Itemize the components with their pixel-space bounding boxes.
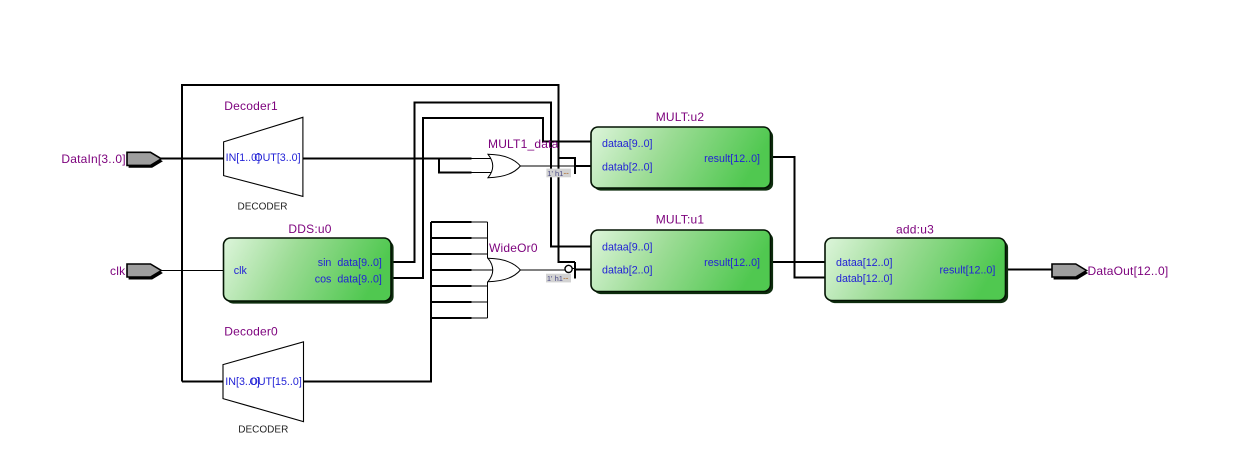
svg-text:OUT[3..0]: OUT[3..0] [254,152,300,164]
wire WideOr0 slat 4 thin into gate [472,269,493,271]
svg-text:dataa[9..0]: dataa[9..0] [602,138,653,150]
wire MULT1_data gate output [520,165,574,167]
wire u1 datab entry [575,269,592,271]
svg-text:DDS:u0: DDS:u0 [288,222,331,236]
svg-text:dataa[12..0]: dataa[12..0] [836,257,892,269]
constant 1'h1 label at MULT:u1 datab [546,274,571,283]
wire WideOr0 comb slat 6 [431,301,471,303]
svg-text:MULT:u1: MULT:u1 [656,213,705,227]
wire WideOr0 comb slat 7 [431,317,471,319]
wire WideOr0 slat 5 thin [472,285,488,287]
svg-text:add:u3: add:u3 [896,223,934,237]
block MULT:u1 [591,230,773,294]
wire sin data from DDS to MULT:u1 dataa [392,102,592,261]
input pin DataIn[3..0] [127,152,163,168]
svg-text:--: -- [564,168,570,177]
wire WideOr0 comb right rail upper [487,222,489,259]
wire bubble to u1 datab junction [572,268,575,270]
svg-text:DECODER: DECODER [237,201,287,212]
input pin clk [127,264,163,280]
svg-text:clk: clk [110,264,126,278]
wire WideOr0 gate output [520,269,565,271]
wire MULT:u1 result to add:u3 dataa [771,261,826,263]
svg-text:1' h1: 1' h1 [547,274,563,283]
wire WideOr0 comb right rail lower [487,282,489,318]
svg-text:MULT1_data: MULT1_data [488,137,559,151]
node bubble on WideOr0 output [565,265,572,272]
svg-text:--: -- [563,274,569,283]
svg-text:result[12..0]: result[12..0] [704,153,760,165]
wire MULT:u2 result to add:u3 datab [771,157,826,277]
wire WideOr0 slat 2 thin [472,237,488,239]
wire add:u3 result to DataOut pin [1006,269,1054,271]
constant 1'h1 label at MULT:u2 datab [546,168,571,177]
wire u1 datab junction stub [574,262,576,279]
svg-text:clk: clk [234,265,248,277]
wire Decoder0 output bus up to WideOr0 comb [304,222,432,382]
block MULT:u2 [591,127,773,191]
svg-text:cos data[9..0]: cos data[9..0] [315,273,382,285]
svg-text:Decoder0: Decoder0 [224,325,278,339]
wire WideOr0 comb slat 5 [431,285,471,287]
wire WideOr0 comb slat 1 [431,221,471,223]
wire WideOr0 slat 3 thin [472,253,488,255]
output pin DataOut[12..0] [1052,264,1088,280]
wire WideOr0 comb slat 2 [431,237,471,239]
wire Decoder0 input [182,381,224,383]
wire Decoder1 output bus [303,158,472,160]
svg-text:MULT:u2: MULT:u2 [656,110,705,124]
wire DataIn trunk: left vertical, top line, right vertical, branch to u1 datab junction [182,85,575,382]
svg-text:DataIn[3..0]: DataIn[3..0] [61,152,125,166]
svg-text:OUT[15..0]: OUT[15..0] [250,376,302,388]
svg-text:1' h1: 1' h1 [547,169,563,178]
wire branch to u2 datab junction with stub [559,158,575,174]
svg-text:datab[12..0]: datab[12..0] [836,273,892,285]
wire cos data from DDS to MULT:u2 dataa [392,118,592,278]
wire WideOr0 comb slat 4 [431,269,471,271]
wire MULT1_data gate input 2 [472,172,492,174]
svg-text:Decoder1: Decoder1 [224,99,278,113]
wire WideOr0 slat 1 thin [472,221,488,223]
svg-text:result[12..0]: result[12..0] [939,264,995,276]
or-gate MULT1_data [488,154,520,177]
decoder Decoder0 trapezoid [223,342,304,422]
svg-text:WideOr0: WideOr0 [489,241,538,255]
block DDS:u0 [224,238,394,304]
or-gate WideOr0 [488,258,520,281]
wire WideOr0 slat 7 thin [472,317,488,319]
wire DataIn to Decoder1 [161,158,224,160]
wire WideOr0 comb slat 3 [431,253,471,255]
svg-text:datab[2..0]: datab[2..0] [602,162,653,174]
wire MULT1_data input comb [439,159,472,173]
decoder Decoder1 trapezoid [224,117,303,196]
svg-text:sin data[9..0]: sin data[9..0] [318,257,382,269]
svg-text:DECODER: DECODER [238,425,288,436]
svg-text:datab[2..0]: datab[2..0] [602,264,653,276]
wire MULT1_data gate input 1 [472,158,492,160]
wire u2 datab entry [575,165,592,167]
wire clk to DDS [162,270,224,272]
svg-text:DataOut[12..0]: DataOut[12..0] [1088,264,1169,278]
block add:u3 [825,238,1008,303]
wire WideOr0 slat 6 thin [472,301,488,303]
svg-text:result[12..0]: result[12..0] [704,257,760,269]
svg-text:dataa[9..0]: dataa[9..0] [602,241,653,253]
